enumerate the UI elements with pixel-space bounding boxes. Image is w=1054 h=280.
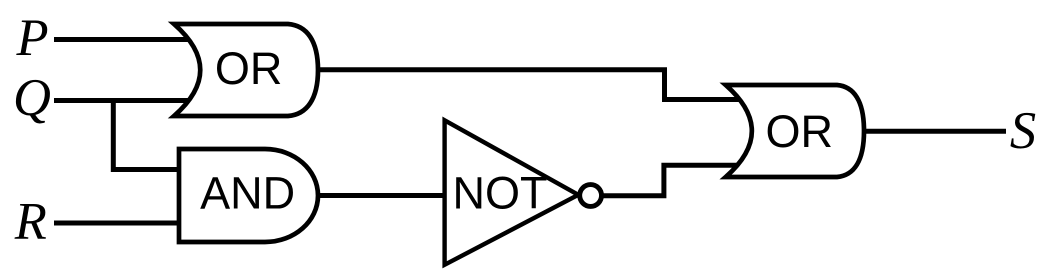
svg-text:NOT: NOT xyxy=(453,168,548,219)
svg-text:OR: OR xyxy=(215,43,283,94)
svg-text:S: S xyxy=(1010,102,1036,160)
svg-text:Q: Q xyxy=(13,69,51,127)
svg-text:R: R xyxy=(14,193,47,251)
svg-text:AND: AND xyxy=(200,167,295,218)
svg-text:OR: OR xyxy=(765,106,833,157)
svg-text:P: P xyxy=(15,9,48,67)
